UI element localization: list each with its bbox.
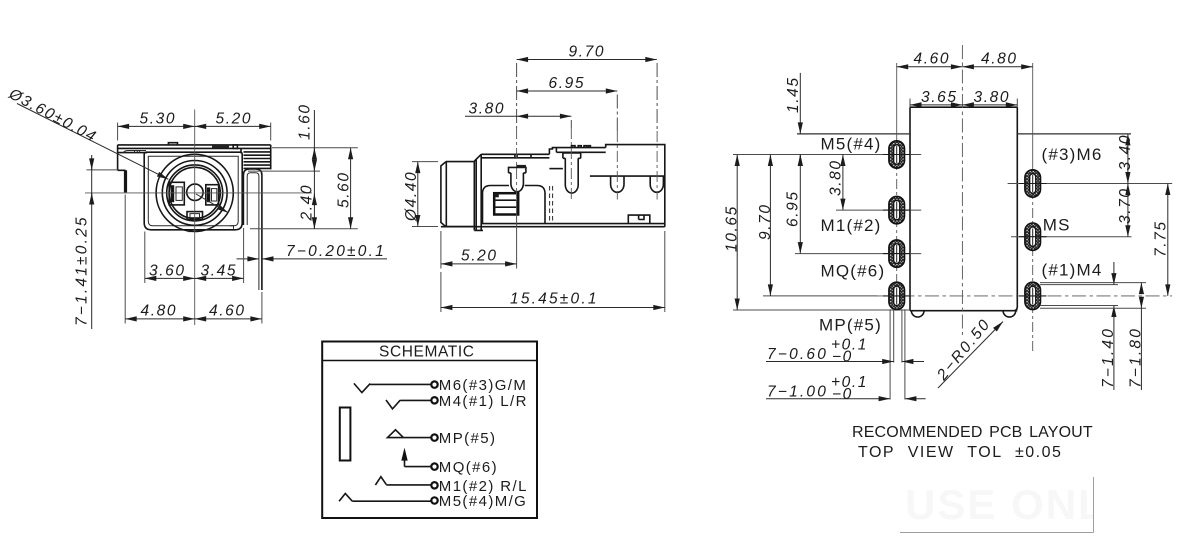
side contact tube 2 <box>563 153 581 158</box>
schematic wire M4 <box>386 400 432 409</box>
svg-text:10.65: 10.65 <box>724 205 741 252</box>
dim 5.30 <box>118 123 271 141</box>
pcb dim 3.80 pads <box>842 155 844 211</box>
pcb dim 1.45 <box>799 73 801 124</box>
svg-text:5.30: 5.30 <box>140 111 177 128</box>
svg-text:−0: −0 <box>832 386 853 403</box>
svg-text:4.60: 4.60 <box>209 303 246 320</box>
side dim 15.45 <box>441 231 665 312</box>
schematic wire M5 <box>339 494 432 502</box>
dim 7-0.20 <box>237 258 259 260</box>
pcb dim 7-1.80 <box>1040 283 1146 309</box>
svg-text:USE ONLY: USE ONLY <box>905 481 1132 528</box>
front body top band <box>118 145 271 149</box>
front inner body outer shell <box>144 152 242 230</box>
front body top tab right <box>212 145 229 149</box>
svg-text:3.80: 3.80 <box>828 159 845 196</box>
svg-text:9.70: 9.70 <box>757 203 774 240</box>
svg-text:2.40: 2.40 <box>299 184 316 222</box>
front left flange block <box>118 145 148 170</box>
svg-text:3.65: 3.65 <box>921 89 958 106</box>
pcb dim 3.40 <box>1127 134 1129 184</box>
front right contact <box>206 185 219 205</box>
svg-text:TOP VIEW TOL ±0.05: TOP VIEW TOL ±0.05 <box>858 444 1062 461</box>
svg-text:9.70: 9.70 <box>569 44 606 61</box>
side pin centerline 1 <box>516 128 518 200</box>
pcb pad MS <box>1025 223 1041 250</box>
front right flange block <box>241 145 271 170</box>
side lower-left rounded panel <box>483 186 546 224</box>
svg-text:M6(#3)G/M: M6(#3)G/M <box>439 377 527 394</box>
schematic sleeve contact rectangle <box>340 408 351 461</box>
front right leg outer <box>243 169 262 290</box>
svg-text:7−1.00: 7−1.00 <box>767 384 828 401</box>
svg-text:2−R0.50: 2−R0.50 <box>933 315 994 384</box>
pcb dim 7-1.00 <box>766 398 890 400</box>
svg-text:3.70: 3.70 <box>1117 187 1134 224</box>
pcb dim 3.65 / 3.80 <box>910 99 1017 108</box>
schematic title separator <box>322 360 537 362</box>
front bottom center tick marks <box>189 226 234 233</box>
svg-text:7−0.20±0.1: 7−0.20±0.1 <box>286 243 386 260</box>
svg-text:7−1.80: 7−1.80 <box>1128 327 1145 388</box>
pcb pad MP#5 <box>889 282 905 309</box>
schematic wire MQ with up arrow <box>405 458 432 467</box>
svg-text:(#3)M6: (#3)M6 <box>1042 145 1103 164</box>
svg-text:M5(#4): M5(#4) <box>821 135 882 154</box>
pcb dim 7.75 <box>1167 184 1169 296</box>
svg-text:1.45: 1.45 <box>785 76 802 113</box>
svg-text:5.60: 5.60 <box>336 171 353 208</box>
front inner body inner shell <box>148 156 238 226</box>
pcb pad tick lines left <box>733 155 921 296</box>
svg-text:3.45: 3.45 <box>201 263 238 280</box>
pcb dim 2-R0.50 leader <box>938 322 1003 389</box>
side dim 9.70 <box>517 63 658 131</box>
pcb left pads column centerline <box>896 63 898 141</box>
svg-text:4.80: 4.80 <box>981 51 1018 68</box>
svg-text:MQ(#6): MQ(#6) <box>821 262 886 281</box>
svg-text:7−1.40: 7−1.40 <box>1100 327 1117 388</box>
side dim 5.20 <box>441 200 517 269</box>
pcb flange edge left <box>797 133 910 135</box>
pcb pad M5#4 <box>889 141 905 168</box>
pcb right pads column centerline <box>1032 63 1034 170</box>
front vertical centerline <box>194 110 196 326</box>
side dim 6.95 <box>616 95 618 132</box>
svg-text:3.40: 3.40 <box>1117 134 1134 171</box>
side cap top <box>481 154 549 158</box>
side dim 3.80 <box>570 120 572 128</box>
svg-text:Ø3.60±0.04: Ø3.60±0.04 <box>5 85 99 146</box>
front circle ring thick 2 <box>167 165 223 221</box>
pcb pad tick lines right <box>1008 184 1173 237</box>
dim 5.60 <box>350 148 352 229</box>
side mid top tick marks <box>572 146 591 148</box>
side shelf segment <box>549 168 563 170</box>
svg-text:7−1.41±0.25: 7−1.41±0.25 <box>74 215 91 326</box>
pcb mount bump right <box>1003 311 1016 317</box>
side mid top block <box>549 148 605 155</box>
pcb vertical centerline <box>961 45 963 335</box>
svg-text:M4(#1) L/R: M4(#1) L/R <box>439 393 528 410</box>
schematic wire M1 <box>375 477 431 485</box>
side contact tube 3 <box>611 176 624 192</box>
front circle hole <box>169 167 220 218</box>
pcb pad M1#2 <box>889 196 905 223</box>
front circle ring thick 1 <box>162 161 227 226</box>
svg-text:6.95: 6.95 <box>549 75 586 92</box>
svg-text:M1(#2): M1(#2) <box>821 216 882 235</box>
side contact tube 1 <box>509 167 526 173</box>
pcb dim 7-1.40 <box>1040 285 1118 306</box>
svg-text:RECOMMENDED PCB LAYOUT: RECOMMENDED PCB LAYOUT <box>852 424 1093 441</box>
pcb pad center tick overlays <box>883 155 1047 254</box>
pcb body outline <box>910 107 1017 311</box>
side barrel <box>441 162 474 227</box>
schematic wire MP with triangle <box>388 430 432 438</box>
side pin centerline 2 <box>570 128 572 200</box>
pcb pad #3M6 <box>1025 170 1041 197</box>
dim 4.80 / 4.60 <box>125 195 262 324</box>
svg-text:15.45±0.1: 15.45±0.1 <box>510 291 599 308</box>
side inner shelf thick line <box>590 175 665 177</box>
pcb dim 6.95 <box>799 155 801 254</box>
pcb dim 9.70 <box>769 155 771 296</box>
front horizontal centerline <box>85 192 312 194</box>
front body top tab left <box>168 143 177 145</box>
front left contact <box>169 182 184 205</box>
front left step wall <box>125 170 127 192</box>
pcb pad #1M4 <box>1025 282 1041 309</box>
side bottom right small box <box>628 215 650 224</box>
svg-text:SCHEMATIC: SCHEMATIC <box>379 343 475 360</box>
svg-text:Ø4.40: Ø4.40 <box>403 171 420 222</box>
front center pin circle <box>187 184 203 200</box>
pcb dim 10.65 <box>736 155 738 311</box>
schematic frame <box>322 342 537 519</box>
pcb dim 4.60 / 4.80 <box>897 66 963 68</box>
svg-text:4.60: 4.60 <box>914 51 951 68</box>
svg-text:5.20: 5.20 <box>461 248 498 265</box>
side flange <box>474 154 483 230</box>
svg-text:3.80: 3.80 <box>974 89 1011 106</box>
svg-text:6.95: 6.95 <box>785 190 802 227</box>
front circle outer <box>156 154 233 231</box>
svg-text:MP(#5): MP(#5) <box>819 316 882 335</box>
side body bottom <box>441 224 665 227</box>
side right top block <box>606 145 665 227</box>
pcb horizontal centerline <box>876 295 1172 297</box>
pcb dim 7-0.60 <box>766 361 894 363</box>
dim 3.60 / 3.45 <box>145 228 244 283</box>
pcb MP pin lines <box>890 309 905 399</box>
pcb pad MQ#6 <box>889 240 905 267</box>
svg-text:5.20: 5.20 <box>216 111 253 128</box>
svg-text:MS: MS <box>1043 216 1071 235</box>
pcb mount bump left <box>911 311 924 317</box>
svg-text:1.60: 1.60 <box>297 103 314 140</box>
side contact tube 4 <box>650 176 663 192</box>
side dim diameter 4.40 <box>412 162 438 227</box>
svg-text:−0: −0 <box>832 349 853 366</box>
svg-text:MP(#5): MP(#5) <box>439 430 497 447</box>
svg-text:7.75: 7.75 <box>1153 220 1170 257</box>
svg-text:MQ(#6): MQ(#6) <box>439 459 498 476</box>
pcb dim 3.70 <box>1127 184 1129 237</box>
svg-text:(#1)M4: (#1)M4 <box>1042 261 1103 280</box>
side contact box <box>494 193 518 214</box>
dim 1.60 / 2.40 chain <box>248 148 358 229</box>
svg-text:M5(#4)M/G: M5(#4)M/G <box>439 493 527 510</box>
pcb flange edge right <box>1017 133 1131 135</box>
side pin centerline 4 <box>656 131 658 200</box>
side hidden dashed wall <box>550 186 553 224</box>
svg-text:7−0.60: 7−0.60 <box>767 346 828 363</box>
svg-text:3.80: 3.80 <box>469 100 506 117</box>
front left flange chamfer detail <box>123 151 146 153</box>
leader diameter 3.60 <box>17 104 168 180</box>
svg-text:4.80: 4.80 <box>141 303 178 320</box>
side pin centerline 3 <box>616 131 618 200</box>
pcb bottom edge extension <box>733 309 910 311</box>
front right leg inner <box>247 173 259 290</box>
front bottom tab <box>187 212 203 220</box>
dim 7-1.41 <box>87 169 118 171</box>
schematic wire M6 <box>354 383 432 392</box>
svg-text:3.60: 3.60 <box>149 263 186 280</box>
